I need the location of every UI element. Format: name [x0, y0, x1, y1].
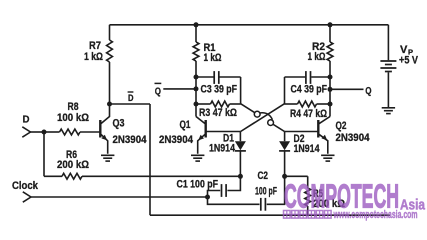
- svg-text:100 pF: 100 pF: [255, 186, 277, 198]
- svg-text:2N3904: 2N3904: [113, 134, 148, 146]
- svg-text:1 kΩ: 1 kΩ: [308, 51, 326, 63]
- svg-text:2N3904: 2N3904: [159, 134, 194, 146]
- svg-text:100 kΩ: 100 kΩ: [57, 112, 89, 124]
- svg-text:Q3: Q3: [113, 118, 125, 130]
- svg-text:200 kΩ: 200 kΩ: [57, 159, 89, 171]
- svg-text:R4 47 kΩ: R4 47 kΩ: [290, 108, 327, 120]
- svg-text:www.compotechasia.com: www.compotechasia.com: [333, 209, 418, 221]
- svg-text:2N3904: 2N3904: [336, 132, 371, 144]
- svg-text:C4 39 pF: C4 39 pF: [291, 83, 328, 95]
- svg-text:+5 V: +5 V: [399, 55, 419, 67]
- svg-text:D: D: [23, 114, 30, 126]
- svg-text:C3 39 pF: C3 39 pF: [201, 83, 238, 95]
- svg-text:C2: C2: [258, 170, 269, 182]
- svg-text:D: D: [128, 93, 134, 104]
- svg-text:C1 100 pF: C1 100 pF: [177, 179, 219, 191]
- svg-text:Q2: Q2: [336, 120, 347, 132]
- svg-text:1 kΩ: 1 kΩ: [84, 51, 103, 63]
- svg-text:Q: Q: [155, 85, 161, 97]
- svg-text:1N914: 1N914: [209, 143, 236, 155]
- svg-text:Q: Q: [365, 85, 371, 97]
- svg-text:1 kΩ: 1 kΩ: [204, 52, 222, 64]
- svg-text:1N914: 1N914: [294, 143, 321, 155]
- svg-text:R3 47 kΩ: R3 47 kΩ: [199, 107, 237, 119]
- svg-text:Q1: Q1: [180, 119, 191, 131]
- svg-text:Clock: Clock: [12, 180, 39, 192]
